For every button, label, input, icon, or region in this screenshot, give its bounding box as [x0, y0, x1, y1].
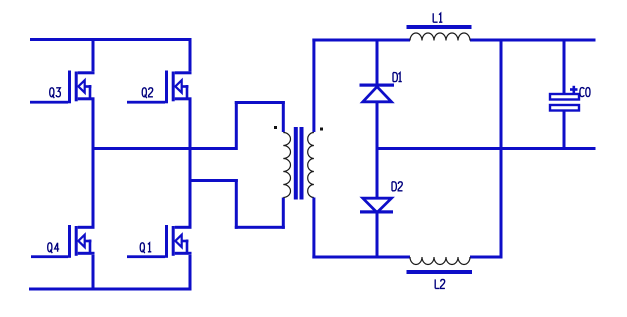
- wire top-left rail: [30, 38, 192, 41]
- label C0: [580, 88, 590, 97]
- inductor L1 bar: [407, 25, 472, 29]
- label D2: [392, 182, 402, 191]
- label L2: [435, 279, 445, 288]
- polarity dot primary: [274, 126, 277, 129]
- inductor L2 winding: [410, 257, 470, 265]
- transformer core: [294, 127, 298, 200]
- label Q2: [142, 88, 153, 98]
- wire bottom-right rail left of L2: [312, 256, 410, 259]
- label Q3: [50, 88, 61, 98]
- wire right leg lower (Q1 source to bottom rail): [189, 255, 192, 291]
- wire top-right rail left of L1: [312, 39, 410, 42]
- capacitor C0: [550, 41, 579, 149]
- transformer T1 secondary winding: [308, 133, 314, 198]
- wire secondary bottom stub: [312, 198, 315, 259]
- wire right leg mid (Q2 source to Q1 drain): [189, 100, 192, 227]
- label Q4: [48, 243, 60, 253]
- wire rail2 bridge B to transformer: [189, 179, 238, 182]
- label D1: [393, 73, 402, 82]
- wire rail1 bridge A to transformer: [92, 147, 238, 150]
- wire right leg upper (Q2 drain): [189, 38, 192, 71]
- transistor Q3: [30, 71, 95, 104]
- plus sign: [570, 88, 578, 91]
- wire left leg upper (Q3 drain): [92, 38, 95, 71]
- wire left leg mid (Q3 source to Q4 drain): [92, 100, 95, 227]
- wire mid-right rail: [376, 147, 596, 150]
- transistor Q2: [127, 71, 192, 104]
- inductor L1 winding: [410, 33, 470, 41]
- wire bottom-left rail: [29, 288, 192, 291]
- wire bottom-right rail right of L2: [470, 256, 503, 259]
- wire secondary top stub: [312, 39, 315, 133]
- transistor Q4: [31, 225, 95, 258]
- wire left leg lower (Q4 source to bottom rail): [92, 255, 95, 291]
- diode D2: [360, 150, 393, 258]
- inductor L2 bar: [407, 270, 473, 274]
- label L1: [433, 13, 442, 22]
- wire top-right rail right of L1: [470, 39, 596, 42]
- label Q1: [140, 243, 151, 253]
- wire transformer box bottom: [235, 226, 285, 229]
- diode D1: [360, 41, 395, 148]
- wire transformer box top: [235, 101, 285, 104]
- transformer T1 primary winding: [283, 133, 290, 198]
- polarity dot secondary: [320, 128, 323, 131]
- wire right leg vertical: [500, 39, 503, 259]
- transistor Q1: [127, 225, 192, 258]
